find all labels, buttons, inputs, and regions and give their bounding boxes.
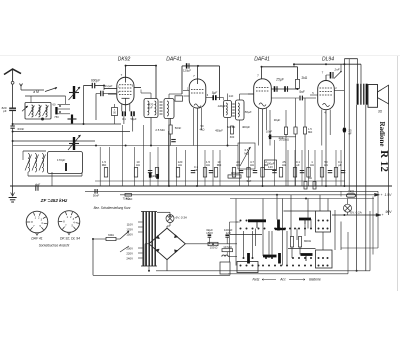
svg-text:pF: pF [3,109,7,113]
svg-text:220V: 220V [126,252,133,256]
antenna tap [20,84,23,87]
svg-text:µF: µF [296,163,300,167]
wire mid row 3 [13,140,95,142]
svg-text:a M: a M [33,90,39,94]
page edge top [0,55,400,57]
svg-text:50µF: 50µF [245,110,252,114]
speaker [368,85,378,108]
wire bus B 1.5V line [85,190,378,192]
wire bus D [230,198,374,200]
svg-text:kΩ: kΩ [206,163,210,167]
capacitor 50nF on bus B [94,189,96,194]
trimmer capacitor 2 [71,115,73,124]
capacitor 10nF black [269,135,271,140]
switch wiper U2 [277,220,280,231]
resistor 180k [228,175,241,178]
svg-text:2nF: 2nF [279,136,284,140]
DL94 top pin [325,75,327,81]
switch wiper L1 [247,253,250,264]
svg-text:µF: µF [194,168,198,172]
svg-text:MΩ: MΩ [217,163,222,167]
resistor near DAF41a grid [175,96,183,101]
svg-text:5nF: 5nF [247,179,252,183]
switch box lower right [316,250,333,268]
wire ground bus [10,185,392,187]
svg-text:kΩ: kΩ [310,163,314,167]
svg-text:800Ω: 800Ω [304,239,311,243]
resistor 60ohm [93,238,106,240]
resistor 20k [284,127,287,135]
blob [156,174,159,179]
svg-text:Bez. Schalterstellung Kurz: Bez. Schalterstellung Kurz [94,206,131,210]
svg-text:180kΩ: 180kΩ [231,171,239,175]
svg-text:50µF: 50µF [130,117,136,121]
svg-text:nF: nF [348,132,352,136]
svg-text:50: 50 [200,124,204,128]
power transformer [142,212,144,267]
IF transformer T2 primary [224,101,232,118]
trimmer osc [65,163,67,171]
wires from box to switch [58,104,70,106]
svg-text:110V: 110V [127,223,134,227]
wire switch left box [220,262,230,274]
svg-text:750: 750 [54,115,59,119]
capacitor 120uF [186,63,188,68]
coil L2c [42,154,44,173]
wire lower right link [341,247,378,249]
svg-text:600µF: 600µF [91,79,101,83]
resistor 150ohm [208,242,218,245]
tube socket DAF41 [26,211,48,233]
svg-text:240V: 240V [126,257,133,261]
resistor row [104,168,107,178]
svg-text:300: 300 [230,135,235,139]
svg-text:6V, 0.3A: 6V, 0.3A [176,216,187,220]
svg-text:25µF: 25µF [275,78,285,82]
DL94 pin drops [321,110,323,146]
svg-text:1.5V: 1.5V [385,193,393,197]
wire right risers [372,197,374,255]
arrow into box [22,106,28,111]
switch bank lower contacts row A [240,265,242,267]
svg-text:DAF 41: DAF 41 [31,237,42,241]
svg-text:400pF: 400pF [242,125,250,129]
svg-text:120µF: 120µF [183,69,191,73]
voltage selector taps [138,221,142,223]
svg-text:50nF: 50nF [175,126,182,130]
svg-text:DK 92, DL 94: DK 92, DL 94 [60,237,80,241]
svg-text:Acc: Acc [279,278,286,282]
RF coil box L1 [25,103,51,120]
resistor 2k [296,79,300,88]
DK92 pin drops [124,98,126,111]
svg-text:Sockelbuchse Ansicht: Sockelbuchse Ansicht [39,244,70,248]
svg-text:150 Ω: 150 Ω [210,246,218,250]
choke [222,255,228,257]
tube socket DK92 DL94 [58,211,80,233]
wire mains left drop [92,239,94,275]
DK92 grid pin wires [104,88,117,90]
wire riser [343,64,345,127]
svg-text:DAF41: DAF41 [254,57,270,63]
svg-text:1Ω: 1Ω [308,176,311,180]
coil L1b [39,105,41,117]
band switch arrow [45,88,57,92]
svg-text:2.5 MΩ: 2.5 MΩ [155,128,164,132]
terminal 90V [376,214,381,217]
wire DAF41a plate loop [182,65,220,67]
oscillator coil box L2 [48,152,83,174]
wire bottom line 2 [228,273,348,275]
capacitor 25nF [343,127,347,133]
pilot lamp 6V [157,211,170,213]
wire bridge output [185,243,237,245]
wire spacer [103,94,105,120]
electrolytic 100uF [265,160,277,170]
svg-text:kΩ: kΩ [324,163,328,167]
svg-text:SG 4Ω: SG 4Ω [227,125,236,129]
coil L1c [46,105,48,117]
wire AVC line [13,145,238,147]
antenna [4,69,21,75]
wire transformer bottom [148,266,150,271]
svg-text:12V: 12V [268,165,273,169]
switch box upper right [316,211,331,232]
wire cathode row [268,136,296,138]
svg-text:pF: pF [149,106,153,110]
resistor 2.5M [169,125,172,134]
wire 90V line [332,214,376,216]
capacitor row [148,170,153,172]
svg-text:+: + [382,213,384,217]
ground [12,186,14,196]
trimmer arrow [69,87,81,100]
resistor 25k [294,127,297,134]
wires IF1 [150,93,152,99]
wires IF2 [227,94,229,101]
switch wiper L3 [301,253,313,256]
IF transformer T1 secondary [164,99,174,119]
svg-text:150V: 150V [206,231,213,235]
switch wiper U3 [299,218,311,221]
svg-text:µF: µF [338,163,342,167]
wire switch horizontals [284,210,316,212]
resistor 300 [231,126,234,134]
svg-text:kΩ: kΩ [178,163,182,167]
wire to ground bus [51,172,53,186]
capacitor 50nF mid [171,139,176,141]
svg-text:170pF: 170pF [57,158,66,162]
wire antenna tap to switch [21,89,44,91]
switch bank lower contacts row B [262,265,264,267]
tuning arrow [68,135,81,150]
svg-text:125V: 125V [126,228,133,232]
svg-text:450pF: 450pF [215,129,223,133]
svg-text:DK92: DK92 [118,57,131,63]
svg-text:10nF: 10nF [266,130,273,134]
wire riser 2 [348,59,350,192]
svg-text:EV. 0.2A: EV. 0.2A [350,211,361,215]
dial lamp EV 0.2A [344,204,352,212]
DAF41a pin drops [193,108,195,146]
wire antenna coupling [84,85,93,87]
capacitor 820pF [9,107,16,109]
svg-text:0.5: 0.5 [245,148,249,152]
terminal 1.5V [375,193,380,196]
coil L2a [28,154,30,173]
svg-text:2kΩ: 2kΩ [302,76,308,80]
svg-text:Netz: Netz [253,278,260,282]
wire bottom line 1 [156,270,370,272]
switch bank upper contacts row B [274,228,276,230]
page edge right [397,56,399,291]
switch wiper U1 [248,219,266,222]
svg-text:1kΩ: 1kΩ [348,189,354,193]
resistor 1k [347,194,356,197]
resistor on bus 1 [304,182,307,190]
wire bus A [95,180,345,182]
capacitor 50uF under DK92 [130,111,132,116]
svg-text:Radione: Radione [378,122,386,147]
switch bank upper contacts row C [298,228,300,230]
resistor 8 ohm [290,237,293,248]
svg-text:MΩ: MΩ [244,151,248,155]
resistor on bus 2 [313,182,316,190]
switch bank lower contacts row C [292,265,294,267]
IF1 core dashes [160,101,163,103]
svg-text:150V: 150V [126,233,133,237]
svg-text:714Ω: 714Ω [123,197,130,201]
wire mid row 2 [13,131,130,133]
svg-text:kΩ: kΩ [250,163,254,167]
volume potentiometer 0.5M [238,143,255,169]
wire DK92 plate loop [125,65,156,67]
wire transformer bottom drops [356,105,358,271]
capacitor 2nF at DL94 [330,72,332,79]
coil arrows [29,106,35,117]
svg-text:63nF: 63nF [18,127,25,131]
IF transformer T1 primary [144,99,158,118]
selector arm [120,231,129,239]
coil L1a [32,105,34,117]
trimmer capacitor [73,86,75,99]
wire upper bus right [294,63,361,65]
capacitor black bar [55,107,57,114]
switch wiper L2 [263,255,277,258]
osc coil arrows [25,155,32,171]
wire output transformer feeds [344,58,357,60]
DAF41b pin drops [258,108,260,146]
svg-text:60Ω: 60Ω [108,233,114,237]
resistor 700 box [112,108,118,116]
junction dots [125,65,127,67]
svg-text:kΩ: kΩ [136,163,140,167]
svg-text:DL94: DL94 [322,57,334,63]
IF transformer T2 secondary [236,100,245,120]
svg-text:MΩ: MΩ [102,163,107,167]
wire speaker return [388,104,390,215]
junction blob [41,118,44,121]
svg-text:0,1: 0,1 [122,117,126,121]
wire osc bottom [27,172,29,176]
wire osc top [23,150,46,152]
svg-text:kΩ: kΩ [282,163,286,167]
svg-text:3Ω: 3Ω [378,110,383,114]
switch box lower left [237,262,258,273]
wire component drops [99,147,101,186]
wire mid row 4 [44,146,60,148]
svg-text:Batterie: Batterie [309,278,321,282]
svg-text:2nF: 2nF [333,68,339,72]
coil L2b [35,154,37,173]
svg-text:1nF: 1nF [229,94,234,98]
output transformer [357,84,359,105]
svg-text:0.1µF: 0.1µF [105,84,113,88]
resistor 1.5M [303,127,306,134]
svg-text:30µF: 30µF [274,118,281,122]
capacitor 50pF black [149,173,152,178]
svg-text:+: + [381,193,383,197]
svg-text:50nF: 50nF [93,194,100,198]
wire mid row 1 [13,123,121,125]
svg-text:DAF41: DAF41 [166,57,182,63]
wire bus C [120,194,374,196]
svg-text:90V: 90V [386,210,393,214]
wire switch verticals [235,199,237,266]
resistor 714 [125,194,132,197]
tuning capacitor C2 [73,137,75,150]
wire DK92 cathode [124,111,126,145]
svg-text:ZF =452 kHz: ZF =452 kHz [40,198,68,203]
bridge rectifier [149,228,185,260]
resistor 800 ohm [298,237,301,248]
svg-text:MΩ: MΩ [308,130,312,134]
wire DAF41b plate loop [262,66,298,68]
band switch contacts [59,105,61,107]
IF2 core dashes [232,103,234,105]
wire coil box top [25,95,66,97]
capacitor 0.1uF under DK92 [122,111,124,116]
svg-text:4kΩ: 4kΩ [200,127,205,131]
wire ps links [228,256,237,258]
switch arm at DL94 [334,72,341,79]
svg-text:140µF: 140µF [217,104,225,108]
wire bottom line 3 [93,274,230,276]
switch bank upper contacts row A [240,228,242,230]
